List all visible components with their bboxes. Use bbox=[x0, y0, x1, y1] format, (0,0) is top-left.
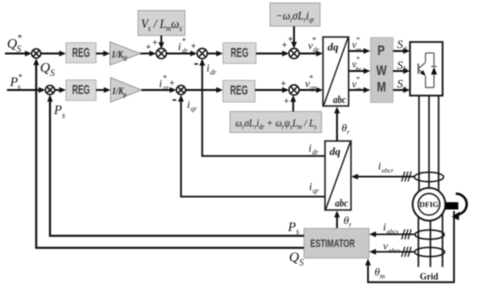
svg-text:+: + bbox=[152, 38, 157, 48]
block REG1 bbox=[66, 43, 96, 63]
svg-text:dq: dq bbox=[330, 146, 342, 158]
stator coil 2 bbox=[415, 247, 445, 256]
svg-text:REG: REG bbox=[72, 83, 90, 97]
svg-text:+: + bbox=[284, 96, 289, 106]
wire rotor phase b bbox=[428, 96, 430, 190]
wire A5 to REG3 bbox=[55, 87, 66, 93]
rotor coil bbox=[414, 172, 443, 181]
DFIG machine bbox=[413, 188, 446, 221]
block REG3 bbox=[66, 80, 96, 100]
wire dq1 out var bbox=[349, 48, 371, 54]
svg-text:+: + bbox=[146, 42, 151, 52]
svg-text:QS: QS bbox=[40, 61, 55, 78]
block REG2 bbox=[223, 43, 256, 64]
svg-text:+: + bbox=[288, 34, 293, 44]
wire dq1 out vcr bbox=[349, 87, 371, 93]
svg-text:θr: θr bbox=[344, 215, 352, 229]
wire Ps* input bbox=[7, 87, 46, 93]
wire A2 to A3 bbox=[166, 51, 197, 57]
svg-text:+: + bbox=[169, 78, 174, 88]
svg-text:P: P bbox=[377, 43, 384, 58]
block -wr sLr iqr bbox=[270, 3, 320, 26]
wire A7 to dq1 bbox=[299, 87, 323, 93]
wire gain to A2 bbox=[140, 51, 156, 57]
svg-text:REG: REG bbox=[230, 84, 248, 98]
svg-text:Ps: Ps bbox=[53, 102, 65, 120]
wire Ps feedback bbox=[47, 95, 304, 236]
svg-text:θr: θr bbox=[342, 123, 350, 137]
wire iabcr pickup bbox=[351, 174, 414, 180]
sign minus A6 bottom bbox=[173, 99, 177, 101]
IGBT symbol bbox=[418, 53, 437, 88]
svg-text:abc: abc bbox=[335, 198, 348, 210]
shaft bbox=[445, 202, 458, 209]
svg-text:M: M bbox=[377, 79, 386, 94]
svg-text:iqr: iqr bbox=[309, 181, 319, 195]
summing junction A5 bbox=[45, 85, 54, 94]
svg-text:idr: idr bbox=[207, 63, 217, 77]
svg-text:ωrσLridr + ωrψsLm / Ls: ωrσLridr + ωrψsLm / Ls bbox=[235, 118, 317, 131]
gain 1/Kp bbox=[111, 78, 142, 103]
block compensation wr sLr idr bbox=[230, 112, 322, 133]
wire dq1 out vbr bbox=[349, 68, 371, 74]
wire stator phase b bbox=[429, 218, 431, 267]
wire REG3 to gain2 bbox=[96, 87, 111, 93]
wire theta-m bbox=[365, 211, 454, 282]
svg-text:dq: dq bbox=[328, 42, 340, 54]
wire Vs box down to A2 bbox=[158, 36, 164, 50]
svg-text:Sb: Sb bbox=[397, 58, 407, 74]
block dq2 transform bbox=[325, 141, 351, 210]
IGBT emitter arrow bbox=[420, 70, 426, 76]
svg-text:v*cr: v*cr bbox=[352, 76, 361, 94]
diode arrow bbox=[431, 67, 437, 75]
svg-text:Grid: Grid bbox=[420, 272, 439, 282]
wire A1 to REG1 bbox=[41, 51, 66, 57]
svg-text:REG: REG bbox=[72, 46, 90, 60]
summing junction A4 bbox=[289, 48, 299, 58]
svg-text:QS: QS bbox=[289, 251, 304, 268]
summing junction A1 bbox=[32, 49, 41, 58]
svg-text:Sc: Sc bbox=[397, 77, 407, 93]
svg-text:v*dr: v*dr bbox=[308, 36, 319, 55]
svg-text:P*s: P*s bbox=[9, 73, 22, 92]
block Vs/Lmws bbox=[138, 11, 185, 36]
wire gain2 to A6 bbox=[141, 87, 176, 93]
wire REG2 to A4 bbox=[256, 51, 289, 57]
stator coil 1 bbox=[415, 230, 444, 239]
wire REG4 to A7 bbox=[255, 87, 289, 93]
wire comp box down to A4 bbox=[291, 26, 297, 48]
summing junction A6 bbox=[176, 85, 185, 94]
wire Qs feedback bbox=[33, 58, 304, 248]
summing junction A3 bbox=[197, 48, 207, 58]
wire vabcs pickup bbox=[369, 249, 414, 255]
wire rotor phase a bbox=[418, 96, 420, 196]
wire A6 to REG4 bbox=[186, 87, 223, 93]
wire Sa bbox=[393, 48, 410, 54]
svg-text:θm: θm bbox=[375, 267, 385, 281]
svg-text:ESTIMATOR: ESTIMATOR bbox=[310, 238, 355, 251]
svg-text:DFIG: DFIG bbox=[419, 200, 439, 209]
rotation arrow bbox=[452, 194, 467, 221]
svg-text:+: + bbox=[282, 40, 287, 50]
wire REG1 to gain bbox=[96, 51, 110, 57]
svg-text:+: + bbox=[191, 41, 196, 51]
wire idr feedback bbox=[199, 59, 325, 156]
svg-text:v*ar: v*ar bbox=[352, 36, 362, 54]
svg-text:+: + bbox=[281, 79, 286, 89]
svg-text:REG: REG bbox=[231, 46, 249, 60]
wire A3 to REG2 bbox=[207, 51, 223, 57]
wire rotor phase c bbox=[438, 96, 440, 196]
svg-text:iqr: iqr bbox=[187, 99, 197, 113]
wire comp box up to A7 bbox=[290, 95, 296, 111]
wire theta-r estimator to dq2 bbox=[334, 211, 340, 229]
wire stator phase a bbox=[417, 213, 419, 267]
svg-text:−ωrσLriqr: −ωrσLriqr bbox=[276, 10, 315, 24]
svg-text:abc: abc bbox=[333, 94, 346, 106]
three-phase marks iabcs bbox=[402, 229, 412, 239]
three-phase marks iabcr bbox=[402, 172, 412, 182]
block dq1 transform bbox=[323, 37, 349, 106]
block REG4 bbox=[223, 80, 255, 102]
svg-text:iabcs: iabcs bbox=[383, 222, 399, 236]
svg-text:v*br: v*br bbox=[352, 56, 362, 74]
sign minus A3 bottom bbox=[194, 63, 198, 65]
wire Qs* input bbox=[5, 51, 32, 57]
svg-text:i*dr: i*dr bbox=[178, 37, 188, 55]
svg-text:idr: idr bbox=[309, 143, 319, 157]
svg-text:v*qr: v*qr bbox=[305, 74, 316, 93]
wire iabcs pickup bbox=[369, 231, 415, 237]
converter box bbox=[410, 42, 443, 96]
wire Sb bbox=[393, 68, 410, 74]
block PWM bbox=[371, 38, 394, 103]
three-phase marks vabcs bbox=[402, 247, 412, 257]
gain 1/KQ bbox=[110, 42, 140, 65]
svg-text:i*qr: i*qr bbox=[159, 74, 169, 92]
wire A4 to dq1 bbox=[299, 51, 323, 57]
svg-text:vabcs: vabcs bbox=[383, 241, 401, 255]
summing junction A7 bbox=[289, 85, 299, 95]
wire Sc bbox=[393, 87, 410, 93]
svg-text:Q*S: Q*S bbox=[7, 33, 22, 54]
svg-text:Sa: Sa bbox=[397, 37, 407, 53]
svg-text:Vs / Lmωs: Vs / Lmωs bbox=[141, 16, 182, 33]
wire theta-r into dq1 bbox=[334, 107, 340, 141]
svg-text:W: W bbox=[376, 63, 387, 78]
summing junction A2 bbox=[156, 48, 166, 58]
block ESTIMATOR bbox=[304, 228, 369, 258]
svg-text:Ps: Ps bbox=[287, 219, 299, 236]
svg-text:iabcr: iabcr bbox=[378, 161, 394, 175]
wire stator phase c bbox=[442, 212, 444, 267]
wire iqr feedback bbox=[178, 95, 325, 197]
